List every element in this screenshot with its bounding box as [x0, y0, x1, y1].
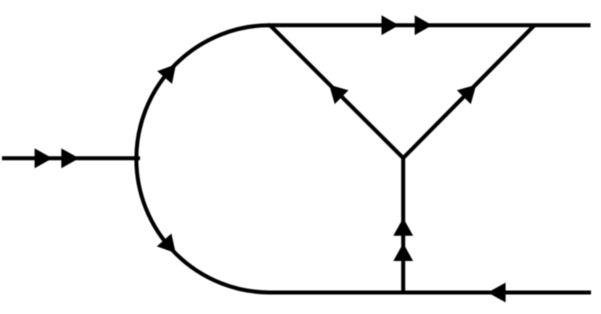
wire: left diagonal from V1 down to center vertex V3	[270, 25, 403, 158]
arrowhead A2 on left external line (points right)	[61, 148, 79, 168]
wire: left external line	[2, 156, 140, 160]
arrowhead A7 on left diagonal (points up-left toward V1)	[329, 85, 348, 104]
wire: bottom horizontal line from arc junction to right edge	[268, 291, 591, 295]
wire: left semicircular loop arc from top vertex to bottom junction	[136, 25, 270, 292]
wire: right diagonal from V2 down to center vertex V3	[403, 25, 534, 158]
arrowhead A6 on top line (points right)	[415, 15, 432, 35]
arrowhead A10 on vertical line (points up)	[393, 243, 413, 261]
arrowhead A4 on lower arc (points down-right, flow left point to bottom junction)	[157, 234, 176, 254]
arrowhead A3 on upper arc (points up-right, flow left point to top vertex)	[157, 64, 176, 84]
arrowhead A8 on right diagonal (points up-right toward V2)	[457, 85, 476, 104]
arrowhead A9 on vertical line (points up)	[393, 218, 413, 236]
wire: top horizontal line from V1 to right edge	[268, 23, 591, 27]
arrowhead A11 on bottom line (points left)	[488, 283, 506, 303]
arrowhead A5 on top line (points right)	[382, 15, 399, 35]
arrowhead A1 on left external line (points right)	[35, 148, 53, 168]
wire: vertical line from V3 down to bottom junction	[401, 156, 405, 293]
